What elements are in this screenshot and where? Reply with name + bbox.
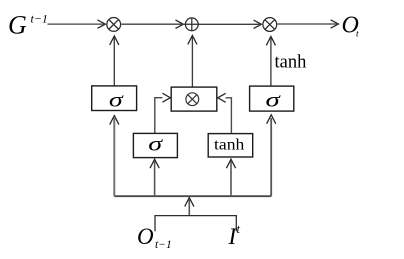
svg-text:t−1: t−1: [155, 239, 172, 251]
wire mult1 to adder: [121, 23, 181, 25]
svg-text:tanh: tanh: [214, 136, 244, 153]
sigma2 gate box: [133, 133, 177, 157]
wire G to mult1: [48, 23, 104, 25]
wire bracket up to bus: [188, 200, 190, 216]
svg-text:t: t: [356, 30, 359, 40]
wire mult2 to output: [277, 23, 336, 25]
wire sigma3 box up to mult2: [270, 38, 272, 86]
svg-text:σ: σ: [109, 88, 125, 112]
wire sigma1 box up to mult1: [113, 38, 115, 87]
sigma1 gate box: [92, 86, 137, 111]
svg-text:G: G: [8, 11, 27, 40]
multiplier X2 (circled times): [263, 18, 277, 32]
wire tanh2 top elbow into multiplier box: [226, 98, 232, 134]
input bracket wire: [155, 216, 236, 232]
svg-text:O: O: [137, 224, 154, 249]
sigma3 gate box: [250, 86, 294, 111]
svg-text:σ: σ: [148, 131, 164, 155]
svg-text:σ: σ: [266, 88, 282, 112]
tanh2 gate box: [208, 134, 253, 157]
bus riser to sigma1: [113, 118, 115, 196]
svg-text:t−1: t−1: [31, 11, 48, 25]
input bus wire: [114, 195, 271, 197]
wire multbox up to adder: [191, 37, 193, 87]
multiplier box X3: [171, 87, 217, 111]
svg-text:t: t: [237, 222, 241, 236]
svg-text:tanh: tanh: [275, 53, 307, 73]
multiplier X1 (circled times): [107, 18, 121, 32]
bus riser to sigma3: [270, 118, 272, 196]
bus riser to tanh2: [230, 161, 232, 196]
wire sigma2 top elbow into multiplier box: [155, 98, 163, 134]
bus riser to sigma2: [154, 161, 156, 196]
adder A1 (circled plus): [184, 18, 200, 31]
wire adder to mult2: [199, 23, 260, 25]
